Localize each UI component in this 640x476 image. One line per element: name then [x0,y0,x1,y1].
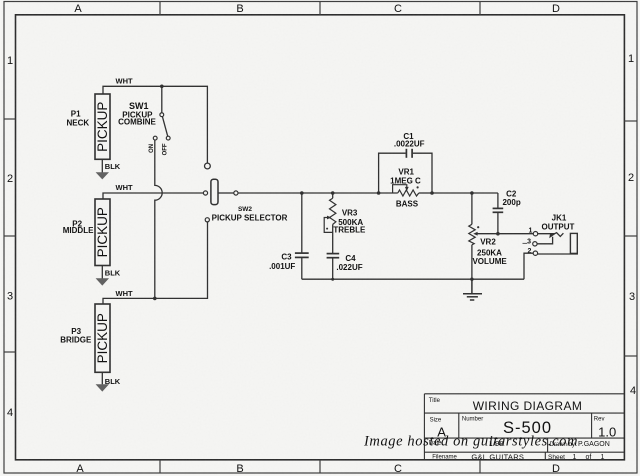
wire P2 white lead to SW2 left contact [103,193,203,199]
svg-text:1: 1 [7,55,13,67]
svg-text:2: 2 [7,173,13,185]
svg-text:PICKUP: PICKUP [95,313,110,363]
svg-text:WIRING DIAGRAM: WIRING DIAGRAM [473,399,583,413]
svg-text:A: A [76,463,84,475]
switch SW2 pickup selector [203,163,287,223]
svg-text:1MEG C: 1MEG C [390,177,421,186]
svg-text:VR2: VR2 [480,237,496,246]
pickup P2 [63,199,110,266]
wire SW1 ON contact down to bridge net (hops over P2 wire) [155,140,162,298]
potentiometer VR1 bass (in series on bus) [390,167,432,208]
svg-text:1.0: 1.0 [598,425,616,440]
ground P3 arrow [96,384,109,391]
pickup P1 [66,94,110,159]
svg-text:BASS: BASS [396,200,419,209]
junction VR3 tap [331,191,335,195]
svg-text:3: 3 [527,238,531,245]
svg-text:C2: C2 [506,189,517,198]
svg-text:VOLUME: VOLUME [472,257,507,266]
wire bottom ground bus [302,278,524,280]
svg-text:D: D [552,3,560,15]
junction C4 bottom [331,278,334,281]
svg-text:1: 1 [601,454,605,461]
junction P1/SW1 common [160,85,164,89]
svg-text:PICKUP: PICKUP [95,102,110,152]
wire P2 black lead [101,266,103,279]
svg-text:WHT: WHT [116,183,133,192]
svg-text:Rev: Rev [594,417,605,423]
svg-text:C: C [394,3,402,15]
junction C2 bottom on wiper wire [496,232,500,236]
capacitor C1 (parallel with VR1) [379,132,432,193]
svg-text:Filename: Filename [432,454,457,460]
svg-text:PICKUP SELECTOR: PICKUP SELECTOR [212,214,288,223]
wire P3 black lead [101,372,103,384]
junction C1 left [377,191,381,195]
svg-text:C3: C3 [281,253,292,262]
svg-text:BLK: BLK [105,162,121,171]
svg-text:G&L GUITARS: G&L GUITARS [471,452,524,461]
wire P1 white lead to SW2 top [103,86,207,163]
svg-text:.022UF: .022UF [336,263,362,272]
wire P1 black lead [101,159,103,172]
capacitor C4 [327,254,363,280]
svg-text:A: A [74,3,82,15]
svg-text:COMBINE: COMBINE [118,118,156,127]
svg-text:BRIDGE: BRIDGE [60,335,92,344]
svg-text:MIDDLE: MIDDLE [63,226,94,235]
svg-text:3: 3 [629,291,635,303]
svg-text:Sheet: Sheet [548,454,565,461]
svg-text:OFF: OFF [163,143,169,155]
ground P2 arrow [96,278,109,285]
svg-text:NECK: NECK [66,119,89,128]
svg-text:C: C [394,463,402,475]
svg-text:Image hosted on guitarstyles.c: Image hosted on guitarstyles.com [363,434,578,450]
ground symbol [463,279,482,300]
jack body [570,233,577,253]
svg-text:1: 1 [628,53,634,65]
wire main bus SW2 to VR1 [238,192,398,194]
potentiometer VR2 volume [469,193,534,279]
switch SW1 [118,86,170,155]
svg-text:Number: Number [462,417,483,423]
svg-text:TREBLE: TREBLE [333,226,366,235]
svg-text:VR3: VR3 [342,208,358,217]
svg-text:VR1: VR1 [398,167,414,176]
junction VR2 tap [470,191,474,195]
svg-text:P.GAGON: P.GAGON [578,441,610,448]
potentiometer VR3 treble [324,193,366,253]
svg-text:WHT: WHT [116,77,133,86]
svg-text:JK1: JK1 [552,213,567,222]
junction SW1 ON wire joins P3 net [153,297,157,301]
svg-text:4: 4 [630,385,636,397]
svg-text:3: 3 [7,291,13,303]
svg-text:.001UF: .001UF [269,262,295,271]
pickup P3 [60,304,110,372]
svg-text:BLK: BLK [105,269,121,278]
svg-text:OUTPUT: OUTPUT [542,222,575,231]
connector JK1 output jack [523,213,578,279]
svg-text:2: 2 [628,172,634,184]
jack tip spring [538,233,564,237]
svg-text:B: B [236,463,243,475]
svg-text:1: 1 [572,454,576,461]
plug tip arrow [549,234,555,238]
svg-text:of: of [585,454,591,461]
svg-text:PICKUP: PICKUP [95,207,110,257]
svg-text:C4: C4 [345,254,356,263]
junction VR2 bottom / ground [470,278,473,281]
junction C3 tap [300,191,304,195]
wire P3 white lead up to SW2 bottom contact [103,222,208,304]
capacitor C3 [269,193,309,279]
svg-text:P1: P1 [71,110,81,119]
capacitor C2 [493,189,521,233]
svg-text:Title: Title [429,398,441,404]
svg-text:200p: 200p [502,198,520,207]
svg-text:SW2: SW2 [238,206,252,213]
svg-text:WHT: WHT [116,289,133,298]
svg-text:1: 1 [528,228,532,235]
svg-text:B: B [236,3,243,15]
svg-text:D: D [552,463,560,475]
svg-text:Size: Size [430,417,442,423]
svg-text:4: 4 [7,407,13,419]
svg-text:.0022UF: .0022UF [394,140,425,149]
ground P1 arrow [96,172,109,179]
title block [424,394,624,460]
junction C1 right [430,191,434,195]
wire bus VR1 to C2 corner [432,192,498,194]
svg-text:SW1: SW1 [129,101,149,111]
